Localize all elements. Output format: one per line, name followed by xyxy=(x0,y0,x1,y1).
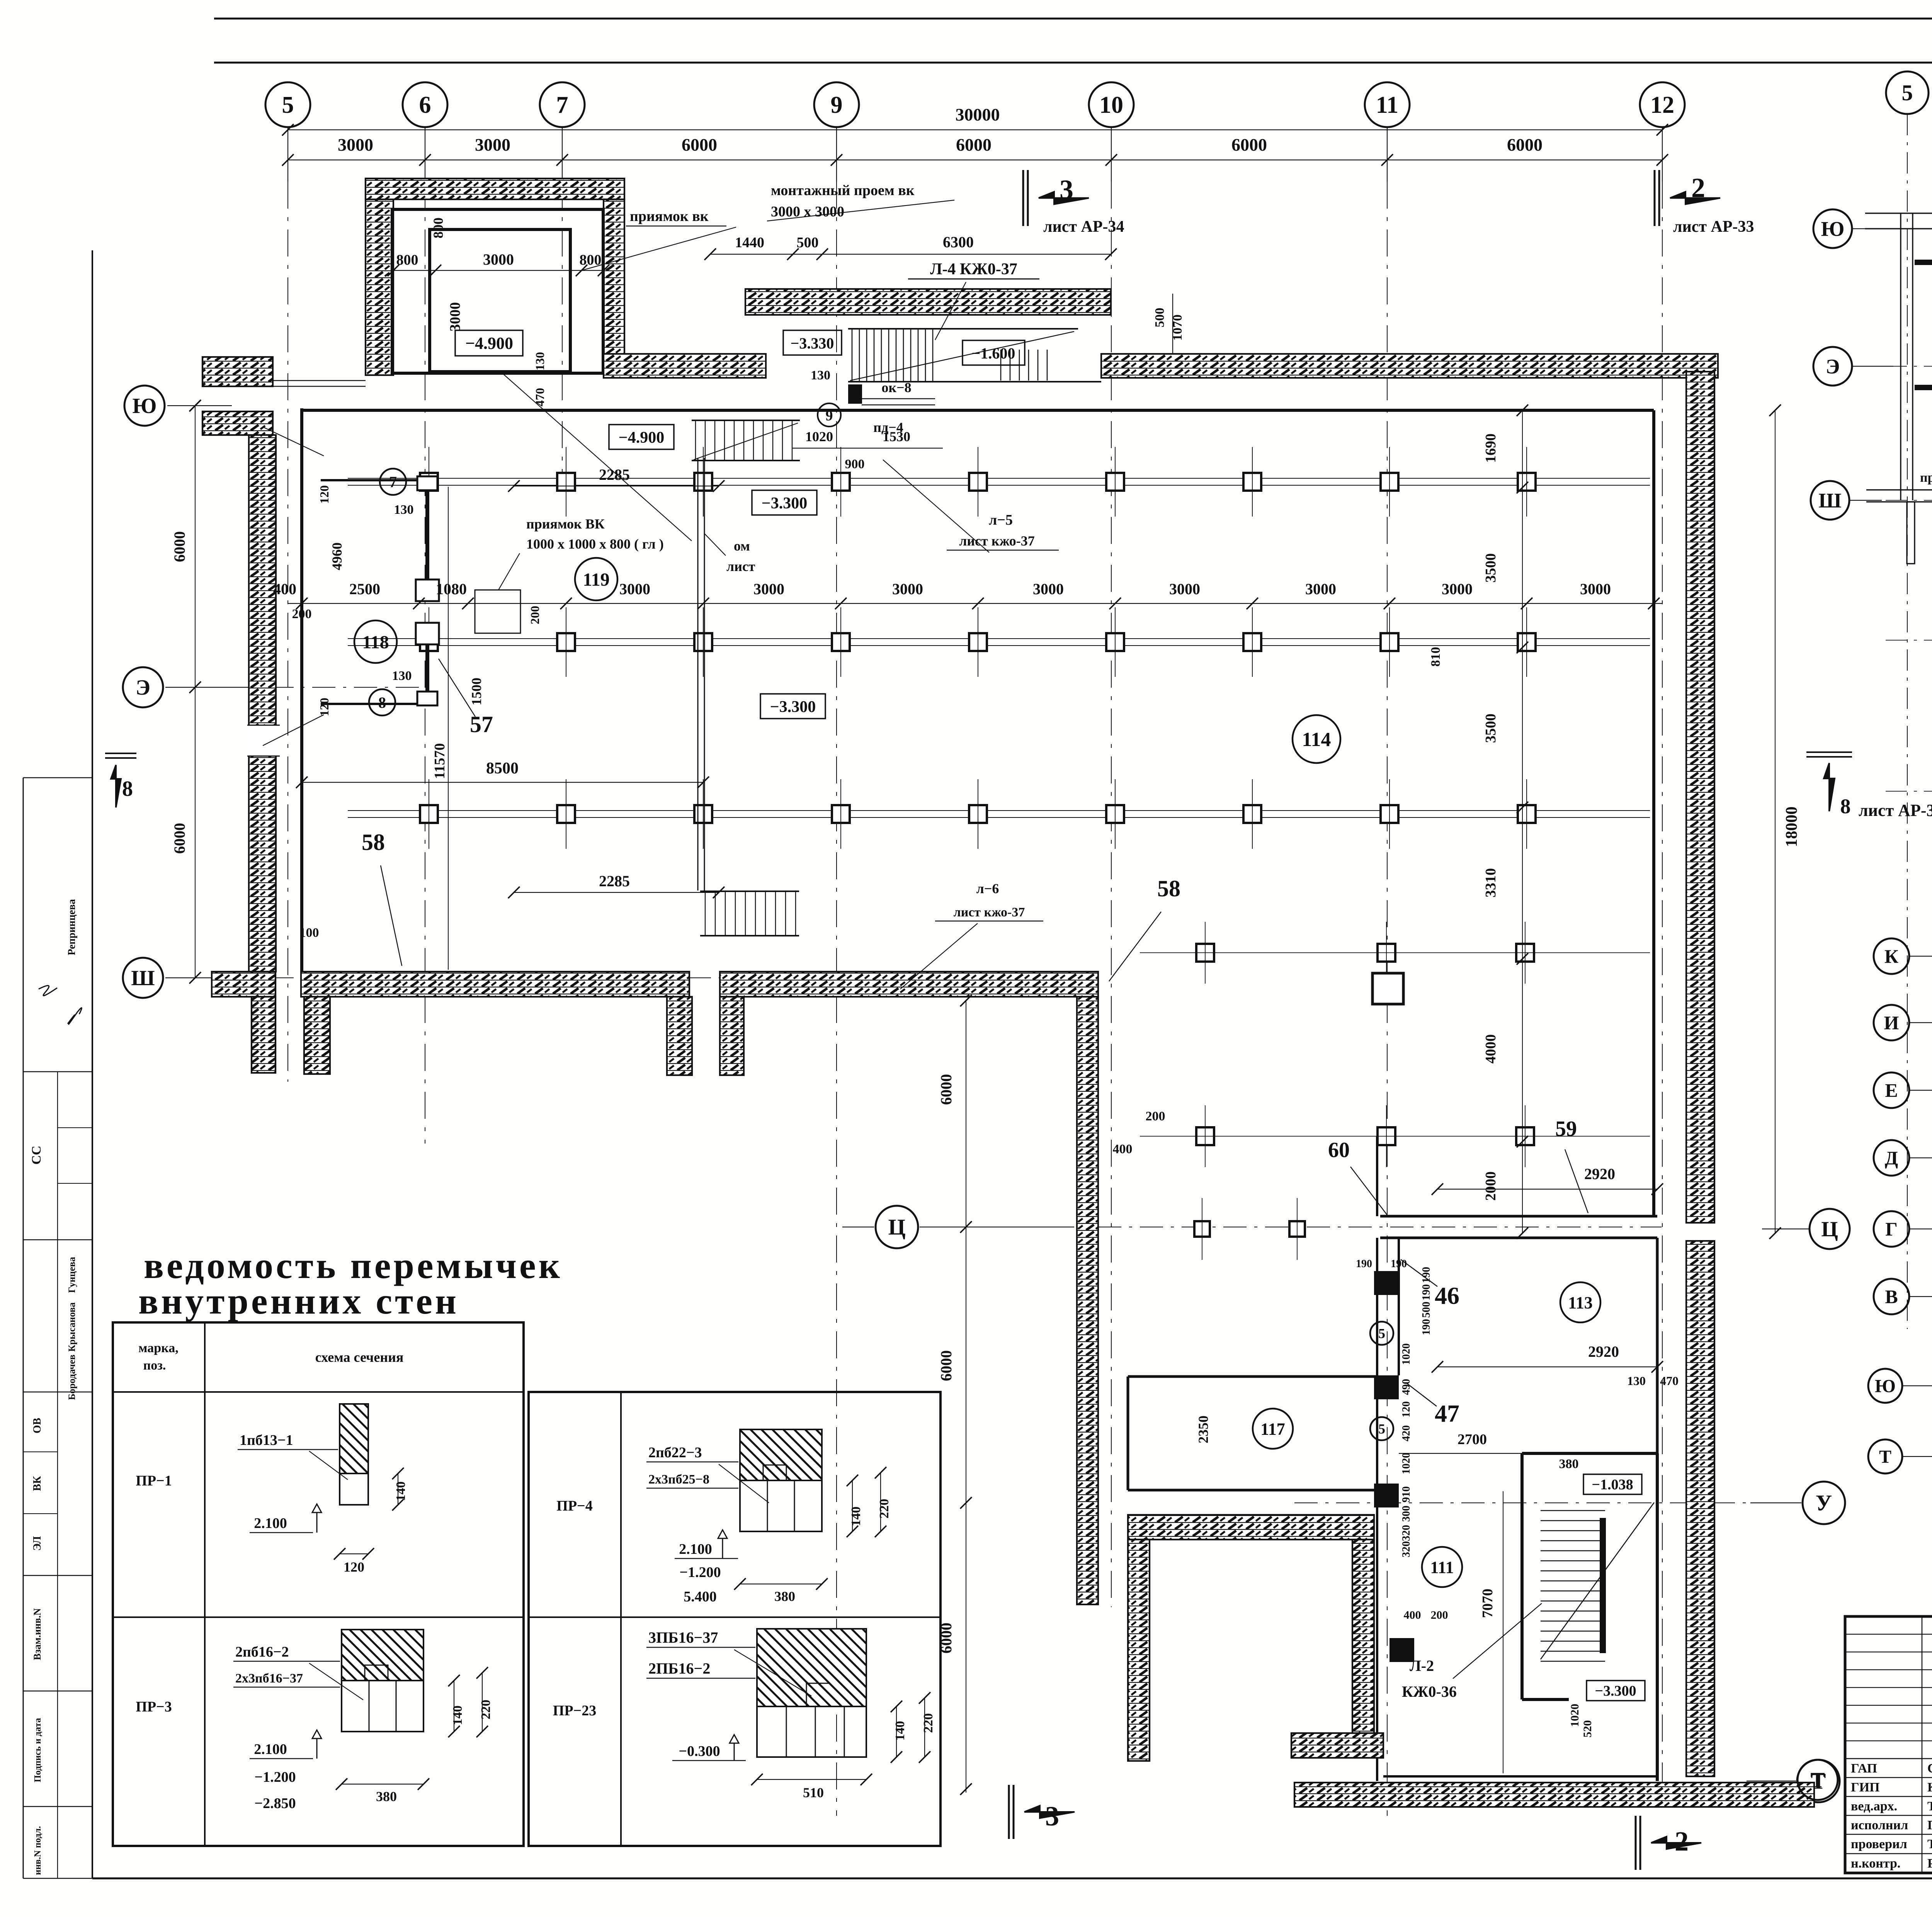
svg-text:120: 120 xyxy=(317,698,331,716)
svg-text:В: В xyxy=(1885,1286,1898,1307)
svg-text:2пб22−3: 2пб22−3 xyxy=(648,1445,702,1461)
svg-text:1440: 1440 xyxy=(735,235,764,251)
svg-text:2х3пб25−8: 2х3пб25−8 xyxy=(648,1472,709,1487)
svg-text:2пб16−2: 2пб16−2 xyxy=(235,1644,289,1660)
svg-text:120: 120 xyxy=(344,1559,364,1575)
svg-text:л−6: л−6 xyxy=(976,881,999,896)
svg-text:ПР−23: ПР−23 xyxy=(553,1703,596,1719)
svg-text:220: 220 xyxy=(877,1499,891,1519)
svg-text:46: 46 xyxy=(1435,1282,1459,1309)
svg-text:Талызина: Талызина xyxy=(1927,1837,1932,1851)
svg-text:2285: 2285 xyxy=(599,466,630,483)
svg-text:18000: 18000 xyxy=(1783,807,1801,847)
svg-text:лист кжо-37: лист кжо-37 xyxy=(954,905,1025,919)
svg-text:520: 520 xyxy=(1581,1720,1594,1738)
svg-text:2.100: 2.100 xyxy=(254,1515,287,1531)
svg-text:3000: 3000 xyxy=(619,580,650,598)
svg-text:2350: 2350 xyxy=(1196,1416,1211,1443)
svg-text:400: 400 xyxy=(273,580,296,598)
svg-text:380: 380 xyxy=(376,1789,397,1804)
svg-text:500: 500 xyxy=(1420,1302,1432,1318)
svg-text:−1.200: −1.200 xyxy=(679,1564,721,1581)
svg-text:11: 11 xyxy=(1376,92,1399,118)
svg-text:190: 190 xyxy=(1420,1284,1432,1300)
svg-text:исполнил: исполнил xyxy=(1851,1818,1908,1832)
svg-text:−3.330: −3.330 xyxy=(791,335,834,352)
svg-text:Ю: Ю xyxy=(1821,217,1845,240)
svg-text:900: 900 xyxy=(845,457,865,471)
svg-text:2.100: 2.100 xyxy=(254,1741,287,1757)
svg-text:190: 190 xyxy=(1356,1258,1372,1270)
svg-text:Пырикова: Пырикова xyxy=(1927,1818,1932,1832)
svg-text:2700: 2700 xyxy=(1458,1431,1487,1448)
svg-text:500: 500 xyxy=(1153,308,1167,328)
svg-text:лист АР-34: лист АР-34 xyxy=(1043,218,1124,236)
svg-text:47: 47 xyxy=(1435,1400,1459,1427)
svg-text:Ш: Ш xyxy=(131,966,155,990)
svg-text:190: 190 xyxy=(1420,1319,1432,1335)
svg-text:3000: 3000 xyxy=(1305,580,1336,598)
svg-text:У: У xyxy=(1816,1490,1832,1516)
svg-text:220: 220 xyxy=(921,1713,935,1733)
svg-text:8: 8 xyxy=(122,777,133,801)
svg-text:КЖ0-36: КЖ0-36 xyxy=(1402,1683,1457,1700)
svg-text:12: 12 xyxy=(1650,92,1674,118)
svg-text:6000: 6000 xyxy=(171,531,188,562)
svg-text:910: 910 xyxy=(1400,1486,1412,1502)
svg-text:200: 200 xyxy=(1146,1109,1165,1123)
svg-text:113: 113 xyxy=(1568,1293,1593,1312)
svg-text:3: 3 xyxy=(1060,174,1073,205)
svg-text:190: 190 xyxy=(1391,1258,1407,1270)
svg-text:1020: 1020 xyxy=(805,429,833,444)
svg-text:2: 2 xyxy=(1675,1826,1689,1857)
svg-text:200: 200 xyxy=(1431,1609,1448,1621)
svg-text:2285: 2285 xyxy=(599,872,630,890)
svg-text:вед.арх.: вед.арх. xyxy=(1851,1799,1897,1813)
svg-text:5: 5 xyxy=(1378,1326,1385,1341)
svg-text:114: 114 xyxy=(1302,729,1331,751)
svg-text:ГАП: ГАП xyxy=(1851,1761,1877,1776)
svg-text:Взам.инв.N: Взам.инв.N xyxy=(32,1608,43,1660)
svg-text:Э: Э xyxy=(1826,355,1840,378)
svg-text:140: 140 xyxy=(394,1482,408,1501)
svg-text:510: 510 xyxy=(803,1785,824,1800)
svg-text:−3.300: −3.300 xyxy=(1595,1683,1636,1699)
svg-text:−3.300: −3.300 xyxy=(762,495,807,512)
svg-text:ок−8: ок−8 xyxy=(881,380,911,395)
svg-text:3000: 3000 xyxy=(447,302,463,331)
svg-text:5: 5 xyxy=(1902,80,1913,105)
svg-text:380: 380 xyxy=(774,1589,795,1604)
svg-text:ВК: ВК xyxy=(31,1476,43,1491)
svg-text:119: 119 xyxy=(583,569,609,590)
svg-text:К: К xyxy=(1884,945,1898,967)
svg-text:Каледина: Каледина xyxy=(1927,1780,1932,1795)
svg-text:5.400: 5.400 xyxy=(684,1589,717,1605)
svg-text:Гунцева: Гунцева xyxy=(67,1257,77,1293)
svg-text:ЭЛ: ЭЛ xyxy=(31,1536,43,1551)
svg-text:120: 120 xyxy=(317,485,331,504)
svg-text:пр 23: пр 23 xyxy=(1920,471,1932,485)
svg-text:ПР−1: ПР−1 xyxy=(136,1473,172,1489)
svg-text:3000: 3000 xyxy=(892,580,923,598)
svg-text:4960: 4960 xyxy=(329,542,345,570)
svg-text:приямок вк: приямок вк xyxy=(630,208,709,224)
svg-text:марка,: марка, xyxy=(138,1341,178,1355)
svg-text:лист кжо-37: лист кжо-37 xyxy=(959,533,1035,549)
svg-text:Л-2: Л-2 xyxy=(1410,1657,1434,1674)
svg-text:Романова: Романова xyxy=(1927,1856,1932,1871)
svg-text:Ц: Ц xyxy=(888,1215,905,1240)
svg-text:3000 х 3000: 3000 х 3000 xyxy=(771,204,844,220)
svg-text:6300: 6300 xyxy=(943,233,974,251)
svg-text:6000: 6000 xyxy=(937,1074,955,1105)
svg-text:130: 130 xyxy=(811,368,830,382)
svg-text:Бородачев: Бородачев xyxy=(67,1354,77,1400)
svg-text:Ш: Ш xyxy=(1818,489,1841,512)
svg-text:4000: 4000 xyxy=(1483,1034,1499,1064)
svg-text:Г: Г xyxy=(1885,1218,1898,1240)
svg-text:10: 10 xyxy=(1099,92,1123,118)
svg-text:420: 420 xyxy=(1400,1425,1412,1441)
svg-text:7070: 7070 xyxy=(1480,1589,1496,1618)
svg-text:Т: Т xyxy=(1810,1768,1825,1792)
svg-text:130: 130 xyxy=(1627,1374,1646,1388)
svg-text:3000: 3000 xyxy=(475,135,510,155)
svg-text:лист АР-36: лист АР-36 xyxy=(1859,801,1932,820)
svg-text:6000: 6000 xyxy=(937,1350,955,1381)
svg-text:2х3пб16−37: 2х3пб16−37 xyxy=(235,1671,303,1686)
svg-text:Репринцева: Репринцева xyxy=(66,899,77,955)
svg-text:9: 9 xyxy=(831,92,843,118)
svg-text:−1.038: −1.038 xyxy=(1592,1477,1633,1493)
svg-text:−3.300: −3.300 xyxy=(770,698,816,716)
svg-text:3000: 3000 xyxy=(338,135,373,155)
svg-text:3500: 3500 xyxy=(1483,553,1499,583)
svg-text:Крысанова: Крысанова xyxy=(67,1302,77,1352)
svg-text:3000: 3000 xyxy=(1580,580,1611,598)
svg-text:−2.850: −2.850 xyxy=(254,1795,296,1812)
svg-text:57: 57 xyxy=(470,712,493,737)
svg-text:58: 58 xyxy=(362,829,385,855)
svg-text:6000: 6000 xyxy=(1231,135,1267,155)
svg-text:ГИП: ГИП xyxy=(1851,1780,1880,1795)
svg-text:Е: Е xyxy=(1885,1079,1898,1101)
svg-text:2000: 2000 xyxy=(1483,1171,1499,1201)
svg-text:200: 200 xyxy=(528,606,542,624)
svg-text:1020: 1020 xyxy=(1568,1704,1581,1727)
svg-text:3000: 3000 xyxy=(753,580,784,598)
svg-text:1500: 1500 xyxy=(469,678,484,705)
svg-text:300: 300 xyxy=(1400,1506,1412,1522)
svg-text:ОВ: ОВ xyxy=(31,1418,43,1433)
svg-text:Талызина: Талызина xyxy=(1927,1799,1932,1813)
svg-text:130: 130 xyxy=(533,352,547,370)
svg-text:1690: 1690 xyxy=(1483,433,1499,463)
svg-text:СС: СС xyxy=(29,1145,44,1164)
svg-text:320: 320 xyxy=(1400,1541,1412,1557)
svg-text:3000: 3000 xyxy=(483,251,514,268)
svg-text:Л-4 КЖ0-37: Л-4 КЖ0-37 xyxy=(930,260,1017,278)
svg-text:3ПБ16−37: 3ПБ16−37 xyxy=(648,1629,718,1646)
svg-text:ом: ом xyxy=(734,538,750,554)
svg-text:1530: 1530 xyxy=(883,429,910,444)
svg-text:лист: лист xyxy=(726,559,755,574)
svg-text:8: 8 xyxy=(1840,795,1851,818)
svg-text:ведомость перемычек: ведомость перемычек xyxy=(144,1245,563,1286)
svg-text:810: 810 xyxy=(1429,647,1443,667)
svg-text:И: И xyxy=(1884,1012,1899,1033)
svg-text:ПР−4: ПР−4 xyxy=(556,1498,592,1514)
svg-text:130: 130 xyxy=(392,669,412,683)
svg-text:−0.300: −0.300 xyxy=(679,1743,720,1759)
svg-text:190: 190 xyxy=(1420,1267,1432,1283)
svg-text:8500: 8500 xyxy=(486,760,519,777)
svg-text:3000: 3000 xyxy=(1033,580,1064,598)
svg-text:58: 58 xyxy=(1157,876,1180,901)
svg-text:11570: 11570 xyxy=(432,743,448,779)
svg-text:Ю: Ю xyxy=(132,394,156,418)
svg-text:Ц: Ц xyxy=(1821,1217,1838,1241)
svg-text:−1.600: −1.600 xyxy=(972,345,1015,362)
svg-text:Подпись и дата: Подпись и дата xyxy=(33,1718,43,1783)
svg-text:470: 470 xyxy=(533,388,547,406)
svg-text:8: 8 xyxy=(378,694,386,711)
svg-text:приямок ВК: приямок ВК xyxy=(526,516,605,532)
svg-text:схема сечения: схема сечения xyxy=(315,1349,404,1365)
svg-text:−4.900: −4.900 xyxy=(465,334,513,353)
svg-text:л−5: л−5 xyxy=(989,512,1013,528)
svg-text:6000: 6000 xyxy=(1507,135,1543,155)
svg-text:поз.: поз. xyxy=(143,1358,166,1373)
svg-text:500: 500 xyxy=(797,235,819,251)
svg-text:111: 111 xyxy=(1430,1558,1454,1577)
svg-text:6000: 6000 xyxy=(682,135,717,155)
svg-text:2500: 2500 xyxy=(349,580,380,598)
svg-text:120: 120 xyxy=(1400,1401,1412,1417)
svg-text:инв.N подл.: инв.N подл. xyxy=(33,1826,43,1875)
svg-text:−1.200: −1.200 xyxy=(254,1769,296,1785)
svg-text:60: 60 xyxy=(1328,1138,1350,1162)
svg-text:ПР−3: ПР−3 xyxy=(136,1699,172,1715)
svg-text:1пб13−1: 1пб13−1 xyxy=(240,1432,293,1448)
svg-text:Смирнов: Смирнов xyxy=(1927,1761,1932,1776)
svg-text:3500: 3500 xyxy=(1483,714,1499,743)
svg-text:н.контр.: н.контр. xyxy=(1851,1856,1900,1871)
svg-text:380: 380 xyxy=(1559,1457,1579,1471)
svg-text:800: 800 xyxy=(396,252,418,268)
svg-text:400: 400 xyxy=(1404,1609,1421,1621)
svg-text:140: 140 xyxy=(849,1507,863,1526)
svg-text:7: 7 xyxy=(556,92,568,118)
svg-text:2920: 2920 xyxy=(1584,1165,1615,1183)
svg-text:1020: 1020 xyxy=(1400,1453,1412,1474)
svg-text:5: 5 xyxy=(1378,1421,1385,1437)
svg-text:Д: Д xyxy=(1885,1147,1898,1169)
svg-text:3000: 3000 xyxy=(1442,580,1473,598)
svg-text:1080: 1080 xyxy=(436,580,467,598)
svg-text:2: 2 xyxy=(1691,172,1705,203)
svg-text:130: 130 xyxy=(394,503,414,517)
svg-text:монтажный проем вк: монтажный проем вк xyxy=(771,182,915,199)
svg-text:7: 7 xyxy=(389,473,397,491)
svg-text:−4.900: −4.900 xyxy=(619,429,664,447)
svg-text:140: 140 xyxy=(893,1721,907,1741)
svg-text:1020: 1020 xyxy=(1400,1343,1412,1365)
svg-text:800: 800 xyxy=(430,218,446,238)
svg-text:3000: 3000 xyxy=(1169,580,1200,598)
svg-text:Ю: Ю xyxy=(1875,1376,1896,1396)
svg-text:проверил: проверил xyxy=(1851,1837,1907,1851)
svg-text:100: 100 xyxy=(299,926,319,940)
svg-text:2.100: 2.100 xyxy=(679,1541,712,1557)
svg-text:59: 59 xyxy=(1555,1117,1577,1141)
svg-text:118: 118 xyxy=(362,632,389,653)
svg-text:1000 х 1000 х 800 ( гл ): 1000 х 1000 х 800 ( гл ) xyxy=(526,536,664,552)
svg-text:400: 400 xyxy=(1113,1142,1133,1156)
svg-text:220: 220 xyxy=(479,1700,493,1720)
svg-text:6000: 6000 xyxy=(171,823,188,854)
svg-text:лист АР-33: лист АР-33 xyxy=(1673,218,1754,236)
svg-text:5: 5 xyxy=(282,92,294,118)
svg-text:490: 490 xyxy=(1400,1379,1412,1395)
svg-text:3310: 3310 xyxy=(1483,868,1499,897)
svg-text:320: 320 xyxy=(1400,1525,1412,1541)
svg-text:6: 6 xyxy=(419,92,431,118)
svg-text:2ПБ16−2: 2ПБ16−2 xyxy=(648,1660,710,1677)
svg-text:3: 3 xyxy=(1045,1801,1059,1832)
svg-text:2920: 2920 xyxy=(1588,1343,1619,1360)
svg-text:140: 140 xyxy=(451,1706,465,1725)
svg-text:6000: 6000 xyxy=(956,135,992,155)
svg-text:200: 200 xyxy=(292,607,312,621)
svg-text:30000: 30000 xyxy=(956,105,1000,124)
svg-text:Э: Э xyxy=(136,676,150,700)
svg-text:800: 800 xyxy=(580,252,602,268)
svg-text:внутренних стен: внутренних стен xyxy=(138,1280,459,1322)
svg-text:117: 117 xyxy=(1260,1419,1285,1438)
svg-text:470: 470 xyxy=(1660,1374,1679,1388)
svg-text:Т: Т xyxy=(1879,1446,1891,1467)
